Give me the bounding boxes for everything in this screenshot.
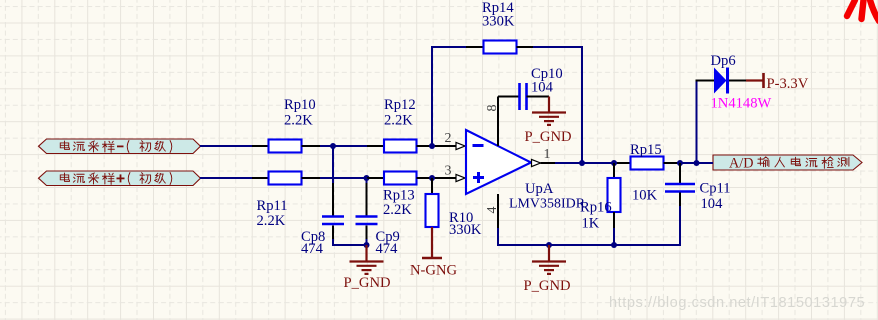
svg-text:Rp13: Rp13 [383, 187, 415, 203]
power port P-3.3V [762, 73, 765, 88]
wire op-amp output to port [541, 162, 557, 164]
svg-text:474: 474 [301, 241, 324, 257]
svg-text:N-GNG: N-GNG [410, 263, 457, 279]
svg-text:330K: 330K [449, 222, 482, 238]
node junction R10 tap [429, 175, 435, 181]
svg-text:474: 474 [376, 241, 399, 257]
resistor Rp10 [269, 140, 302, 153]
node junction Cp11 [677, 160, 683, 166]
wire port1 to Rp10 [200, 145, 252, 147]
port A/D输入电流检测 [713, 155, 862, 170]
port 电流采样+（初级） [39, 171, 201, 186]
svg-text:2.2K: 2.2K [384, 112, 413, 128]
svg-text:Rp11: Rp11 [257, 198, 288, 214]
capacitor Cp9 [366, 178, 368, 183]
resistor Rp16 [613, 163, 615, 178]
svg-text:Dp6: Dp6 [711, 53, 736, 69]
power port N-GNG [431, 227, 433, 258]
svg-text:Rp12: Rp12 [384, 97, 416, 113]
svg-text:P_GND: P_GND [344, 275, 391, 291]
svg-text:104: 104 [701, 196, 724, 212]
svg-text:330K: 330K [482, 13, 515, 29]
svg-text:A/D: A/D [729, 156, 753, 172]
ground P_GND under caps [365, 245, 367, 261]
svg-text:1K: 1K [582, 216, 600, 232]
node junction Dp6 [694, 160, 700, 166]
pin 8 [497, 97, 499, 147]
svg-text:P-3.3V: P-3.3V [767, 76, 809, 92]
svg-text:10K: 10K [632, 188, 658, 204]
svg-text:UpA: UpA [525, 181, 554, 197]
svg-text:Rp16: Rp16 [580, 199, 612, 215]
svg-text:1N4148W: 1N4148W [711, 96, 772, 112]
resistor R10 [431, 178, 433, 194]
capacitor Cp10 [498, 96, 519, 98]
node junction row2/Cp9 [364, 175, 370, 181]
wire port2 to Rp11 [200, 177, 252, 179]
wire Rp12 to op-amp pin2 [417, 145, 457, 147]
diode Dp6 [696, 80, 698, 163]
red watermark character fragment [847, 0, 878, 21]
resistor Rp12 [367, 145, 384, 147]
resistor Rp11 [269, 172, 302, 185]
wire Rp10 to Rp12 [302, 145, 321, 147]
ground P_GND top [548, 97, 550, 113]
ground P_GND bottom [548, 245, 550, 261]
svg-text:4: 4 [485, 207, 500, 214]
resistor Rp15 [617, 162, 631, 164]
svg-text:1: 1 [544, 147, 551, 162]
capacitor Cp8 [332, 146, 334, 183]
wire Rp13 to op-amp pin3 [417, 177, 457, 179]
svg-text:https://blog.csdn.net/IT181501: https://blog.csdn.net/IT18150131975 [609, 295, 865, 311]
svg-text:3: 3 [445, 164, 452, 179]
resistor Rp14 [466, 46, 484, 48]
svg-text:P_GND: P_GND [524, 278, 571, 294]
svg-text:Rp10: Rp10 [284, 97, 316, 113]
capacitor Cp11 [679, 163, 681, 183]
wire diode to power [729, 80, 746, 82]
node junction feedback [579, 160, 585, 166]
svg-text:Cp11: Cp11 [700, 181, 731, 197]
node junction ground tap [364, 242, 370, 248]
node junction feedback tap [429, 143, 435, 149]
svg-text:2.2K: 2.2K [257, 213, 286, 229]
port 电流采样-（初级） [39, 139, 201, 154]
svg-text:LMV358IDR: LMV358IDR [509, 196, 586, 211]
svg-text:P_GND: P_GND [525, 129, 572, 145]
svg-text:Rp15: Rp15 [630, 142, 662, 158]
pin 3 arrow [456, 174, 465, 181]
node junction row1/Cp8 [330, 143, 336, 149]
svg-text:2.2K: 2.2K [383, 202, 412, 218]
wire feedback right vertical [517, 46, 534, 48]
pin 1 output arrow [532, 159, 541, 166]
pin 4 [497, 194, 499, 228]
svg-text:2: 2 [445, 131, 452, 146]
op-amp UpA LMV358IDR [466, 130, 531, 194]
wire Rp11 to Rp13 [302, 177, 321, 179]
svg-text:2.2K: 2.2K [284, 112, 313, 128]
wire cap bottoms rail [332, 244, 368, 246]
svg-text:104: 104 [531, 80, 554, 96]
node junction Rp16 bottom [611, 242, 617, 248]
pin 2 arrow [456, 142, 465, 149]
svg-text:8: 8 [485, 105, 500, 112]
wire ground rail [497, 244, 681, 246]
node junction Rp16 [611, 160, 617, 166]
wire feedback left vertical [431, 46, 433, 146]
node junction pgnd [546, 242, 552, 248]
resistor Rp13 [367, 177, 384, 179]
